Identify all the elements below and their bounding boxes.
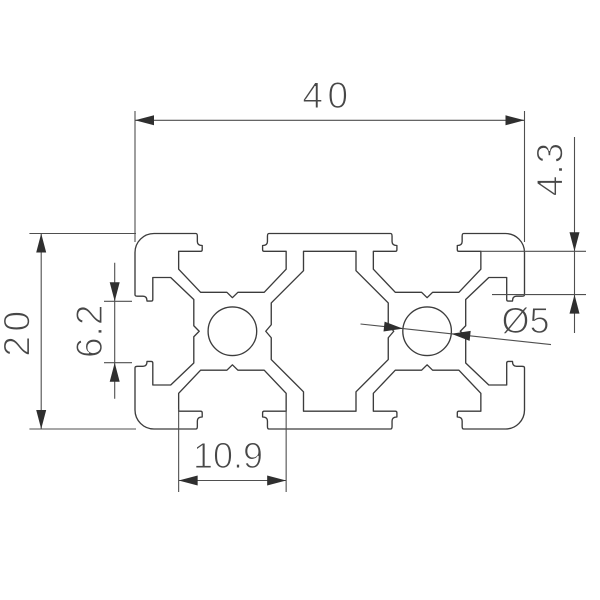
dimension 6.2 line: [114, 263, 116, 399]
dimension diameter 5 leader: [361, 324, 552, 345]
dimension 20 extension lines: [29, 234, 136, 430]
profile outline with six T-slots: [135, 234, 525, 430]
dimension 40 arrows: [135, 115, 525, 125]
svg-text:4.3: 4.3: [530, 142, 571, 196]
dimension 20 line: [40, 234, 42, 430]
dimension 10.9 arrows: [179, 476, 287, 486]
left bore hole: [208, 307, 257, 356]
dimension 10.9 extension lines: [179, 409, 287, 492]
svg-text:40: 40: [302, 75, 352, 116]
right bore hole: [403, 307, 452, 356]
dimension 40 line: [135, 119, 525, 121]
svg-text:6.2: 6.2: [69, 304, 110, 358]
svg-text:Ø5: Ø5: [501, 300, 549, 341]
dimension 4.3 line: [574, 137, 576, 333]
centre cavity: [266, 251, 394, 411]
dimension 10.9 line: [179, 480, 287, 482]
dimension 40 extension lines: [135, 111, 525, 242]
svg-text:20: 20: [0, 306, 38, 356]
dimension diameter 5 arrows: [384, 322, 471, 341]
svg-text:10.9: 10.9: [193, 435, 263, 476]
dimension 20 arrows: [36, 234, 46, 430]
dimension 4.3 extension lines: [481, 251, 586, 294]
dimension 4.3 arrows: [570, 232, 580, 313]
dimension 6.2 arrows: [110, 282, 120, 381]
dimension 6.2 extension lines: [104, 301, 132, 362]
